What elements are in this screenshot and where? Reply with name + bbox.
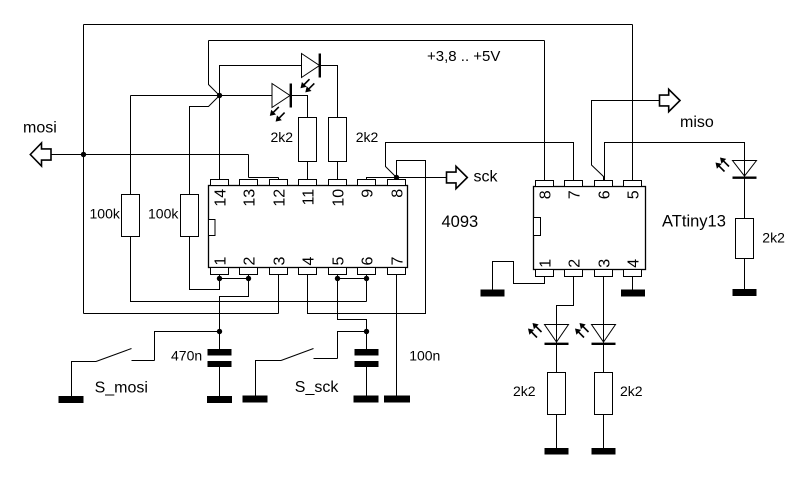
wire ATtiny pin 6 diagonal to miso arrow: [592, 101, 660, 181]
U1 pin box 11: [299, 180, 317, 186]
svg-text:3: 3: [272, 257, 289, 266]
U2 pin box 5: [624, 181, 642, 187]
LED D1 emission arrows: [273, 107, 279, 113]
wire VCC riser to ATtiny pin 5: [632, 25, 634, 181]
LED D5 emission arrows: [578, 332, 584, 338]
wire ATtiny pin 4 to ground: [632, 277, 634, 290]
sck block arrow: [447, 166, 468, 188]
wire VCC second rail: [209, 40, 545, 42]
capacitor C2 100n plates: [355, 349, 379, 356]
switch S_mosi blade: [96, 349, 132, 362]
wire 4093 pin 9 tie to pin 8 node: [367, 178, 397, 180]
svg-text:ATtiny13: ATtiny13: [662, 213, 726, 231]
wire ATtiny pin 3 to LED D5: [603, 277, 605, 373]
wire 4093 pin 2 down to capacitor C1 node: [220, 275, 249, 350]
svg-text:2k2: 2k2: [356, 129, 379, 145]
svg-text:100k: 100k: [90, 206, 121, 222]
resistor R6 2k2: [548, 373, 566, 415]
ground S_mosi: [59, 396, 84, 403]
svg-text:13: 13: [242, 189, 259, 207]
svg-text:miso: miso: [680, 114, 714, 131]
U1 pin box 4: [299, 268, 317, 275]
LED D3: [744, 161, 746, 219]
U1 pin box 8: [388, 180, 406, 186]
wire ATtiny pin 1 to ground: [493, 262, 545, 290]
switch S_mosi left lead: [72, 362, 97, 397]
ground C2: [354, 396, 379, 403]
wire 4093 pin 7 to ground: [396, 275, 398, 396]
wire tie 4093 pin 13 to pin 12: [249, 178, 279, 180]
resistor R2 100k: [181, 195, 199, 237]
wire VCC drop to 4093 pin 3: [278, 275, 280, 314]
ground 4093 pin 7: [384, 396, 410, 403]
svg-text:S_sck: S_sck: [295, 379, 340, 396]
svg-text:2: 2: [242, 257, 259, 266]
LED D4 emission arrows: [536, 326, 542, 332]
wire sck node diagonal to ATtiny pin 7: [386, 143, 574, 181]
svg-text:8: 8: [538, 190, 555, 199]
LED D3 emission arrows: [723, 161, 729, 167]
mosi block arrow: [30, 143, 51, 166]
wire resistor R1 bottom to 4093 pin 6: [131, 237, 367, 302]
wire resistor R2 bottom to 4093 pin 1: [190, 237, 220, 290]
LED D5: [592, 325, 616, 343]
junction 4093 pin 5: [335, 276, 340, 281]
wire node A right to LED D1 anode: [220, 95, 273, 97]
wire VCC riser to ATtiny pin 8: [544, 41, 546, 181]
wire tie 4093 pin 5 to pin 6: [338, 278, 367, 280]
switch S_sck right lead: [314, 332, 367, 359]
LED D4: [545, 325, 569, 343]
wire node A to 4093 pin 14: [219, 96, 221, 180]
switch S_mosi right lead: [132, 332, 220, 361]
U2 pin box 1: [536, 270, 554, 277]
wire node A diagonal to resistor R2 top: [190, 96, 220, 195]
wire ATtiny pin 2 to LED D4: [557, 277, 574, 373]
U1 pin box 7: [388, 268, 406, 275]
svg-text:100n: 100n: [409, 348, 440, 364]
svg-text:9: 9: [360, 189, 377, 198]
wire mosi line to 4093 pin 13: [51, 155, 249, 178]
svg-text:11: 11: [301, 189, 318, 206]
switch S_sck blade: [281, 349, 314, 361]
U1 pin box 3: [270, 268, 288, 275]
svg-text:7: 7: [390, 257, 407, 266]
junction 4093 pin 1: [217, 276, 222, 281]
miso block arrow: [660, 89, 681, 111]
wire VCC bottom-left rail: [84, 313, 279, 315]
svg-text:S_mosi: S_mosi: [95, 380, 148, 397]
resistor R7 2k2: [595, 373, 613, 415]
svg-text:12: 12: [272, 189, 289, 207]
wire node A left to resistor R1 top: [131, 96, 220, 195]
wire resistor R6 bottom lead: [556, 415, 558, 448]
U2 pin box 4: [624, 270, 642, 277]
U1 pin box 14: [211, 180, 229, 186]
U1 pin box 13: [240, 180, 258, 186]
resistor R3 2k2: [299, 118, 317, 162]
svg-text:2k2: 2k2: [513, 383, 536, 399]
LED D1: [272, 84, 290, 108]
junction 4093 pin 6: [364, 276, 369, 281]
ground S_sck: [243, 396, 268, 403]
junction 4093 pin 2: [246, 276, 251, 281]
ground ATtiny pin 1: [481, 290, 505, 297]
resistor R4 2k2: [329, 118, 347, 162]
wire VCC left rail: [83, 25, 85, 314]
svg-text:2k2: 2k2: [620, 383, 643, 399]
IC U2 ATtiny13 body: [534, 187, 646, 270]
wire VCC drop with diagonal into node A: [209, 41, 220, 96]
wire 4093 pin 5 down to capacitor C2 node: [338, 275, 367, 350]
svg-text:1: 1: [213, 257, 230, 266]
wire LED D2 cathode to resistor R4: [320, 66, 338, 118]
wire ATtiny pin 6 riser to LED D3: [605, 143, 745, 181]
wire resistor R5 bottom lead: [744, 259, 746, 290]
svg-text:6: 6: [360, 257, 377, 266]
wire LED D1 cathode to resistor R3: [291, 96, 308, 118]
svg-text:+3,8 .. +5V: +3,8 .. +5V: [427, 48, 500, 65]
U1 pin box 2: [240, 268, 258, 275]
ground LED D5 branch: [592, 448, 616, 455]
junction node sck (4093 pin 8): [394, 175, 399, 180]
svg-text:470n: 470n: [171, 348, 202, 364]
svg-text:4093: 4093: [442, 213, 479, 231]
wire tie 4093 pin 1 to pin 2: [220, 278, 249, 280]
wire VCC top rail: [84, 24, 633, 26]
U2 pin box 3: [595, 270, 613, 277]
svg-text:4: 4: [626, 259, 643, 268]
svg-text:2k2: 2k2: [762, 230, 785, 246]
U2 pin box 7: [565, 181, 583, 187]
wire 4093 pin 4 loop to sck node: [308, 161, 426, 314]
svg-text:3: 3: [597, 259, 614, 268]
svg-text:10: 10: [331, 189, 348, 207]
wire 4093 pin 8 stub: [396, 178, 398, 180]
U1 pin box 9: [358, 180, 376, 186]
U1 pin box 12: [270, 180, 288, 186]
svg-text:sck: sck: [474, 169, 499, 186]
capacitor C1 470n plates: [208, 349, 232, 356]
svg-text:4: 4: [301, 257, 318, 266]
svg-text:5: 5: [626, 190, 643, 199]
ground LED D4 branch: [545, 448, 569, 455]
wire resistor R7 bottom lead: [603, 415, 605, 448]
ground C1: [207, 396, 232, 403]
svg-text:6: 6: [597, 190, 614, 199]
U2 pin box 8: [536, 181, 554, 187]
wire capacitor C1 bottom lead: [219, 367, 221, 396]
svg-text:1: 1: [538, 259, 555, 268]
LED D2: [302, 54, 320, 78]
svg-text:7: 7: [567, 190, 584, 199]
switch S_sck left lead: [256, 361, 282, 396]
U1 notch: [209, 220, 216, 236]
wire sck node to sck arrow: [397, 177, 447, 179]
svg-text:14: 14: [213, 189, 230, 207]
U2 notch: [534, 218, 541, 236]
svg-text:100k: 100k: [148, 206, 179, 222]
IC U1 4093 body: [209, 186, 408, 268]
ground ATtiny pin 4: [621, 290, 645, 297]
LED D2 emission arrows: [304, 79, 310, 85]
svg-text:2: 2: [567, 259, 584, 268]
U1 pin box 10: [329, 180, 347, 186]
U1 pin box 5: [329, 268, 347, 275]
U2 pin box 2: [565, 270, 583, 277]
wire VCC branch to LED D2 anode: [220, 66, 302, 96]
svg-text:8: 8: [390, 189, 407, 198]
wire resistor R3 bottom to 4093 pin 11: [307, 162, 309, 180]
U1 pin box 1: [211, 268, 229, 275]
wire capacitor C2 bottom lead: [366, 367, 368, 396]
U1 pin box 6: [358, 268, 376, 275]
ground LED D3 branch: [733, 289, 757, 296]
resistor R5 2k2: [736, 219, 754, 259]
junction node C1 top: [217, 329, 222, 334]
wire resistor R4 bottom to 4093 pin 10: [337, 162, 339, 180]
U2 pin box 6: [595, 181, 613, 187]
junction node C2 top: [364, 329, 369, 334]
resistor R1 100k: [122, 195, 140, 237]
svg-text:2k2: 2k2: [271, 129, 294, 145]
junction node VCC left rail / mosi: [81, 152, 86, 157]
svg-text:mosi: mosi: [23, 120, 57, 137]
svg-text:5: 5: [331, 257, 348, 266]
junction node A (VCC): [217, 93, 222, 98]
